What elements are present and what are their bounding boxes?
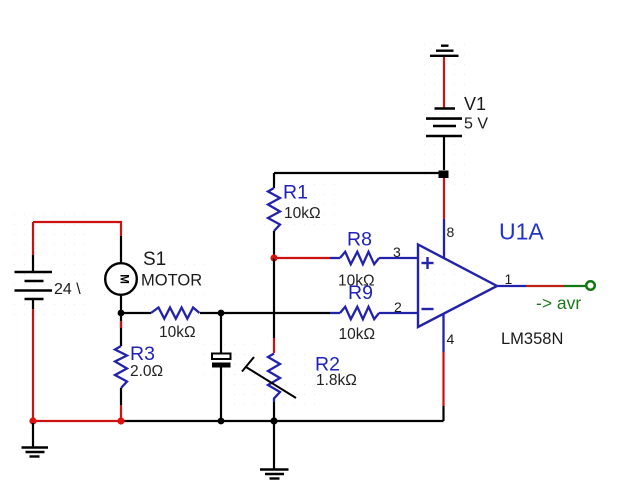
capacitor C1 xyxy=(212,313,231,421)
svg-text:R1: R1 xyxy=(283,182,308,204)
resistor R3 xyxy=(115,313,127,421)
resistor R8 xyxy=(274,252,418,264)
svg-text:8: 8 xyxy=(447,224,455,240)
svg-text:R9: R9 xyxy=(348,282,373,304)
wire: bottom rail red xyxy=(33,420,121,422)
ground (bottom left) xyxy=(22,423,49,457)
wire: motor bottom to junction xyxy=(120,295,122,313)
svg-text:1: 1 xyxy=(505,271,513,287)
svg-text:M: M xyxy=(117,274,129,284)
wire: top rail R1 to V1 xyxy=(274,172,444,174)
ground (top, above V1) xyxy=(430,46,459,56)
svg-text:2.0Ω: 2.0Ω xyxy=(130,363,163,380)
svg-text:24 \: 24 \ xyxy=(54,281,81,298)
svg-text:10kΩ: 10kΩ xyxy=(159,324,196,341)
motor S1 xyxy=(105,263,137,295)
svg-text:MOTOR: MOTOR xyxy=(141,272,202,290)
pin 4 wire xyxy=(442,314,444,421)
node: motor/R3 junction xyxy=(118,310,125,317)
wire: bottom rail black xyxy=(121,420,444,422)
svg-text:R8: R8 xyxy=(347,229,372,251)
wire: R2 column below red node xyxy=(273,258,275,353)
node: red dot R3 bottom xyxy=(117,417,124,424)
svg-text:10kΩ: 10kΩ xyxy=(339,326,376,343)
node: R2 bottom junction xyxy=(270,417,277,424)
ground (bottom center) xyxy=(260,423,289,479)
pin 8 wire xyxy=(443,177,445,259)
resistor 10kΩ (series to op-amp) xyxy=(121,308,221,319)
svg-text:10kΩ: 10kΩ xyxy=(284,205,321,222)
pin 1 output wire xyxy=(497,285,586,287)
svg-text:3: 3 xyxy=(393,244,401,260)
wire: left red wire battery to bottom rail xyxy=(32,309,34,421)
svg-text:LM358N: LM358N xyxy=(501,330,563,348)
battery 24V xyxy=(15,222,53,309)
battery V1 xyxy=(426,109,462,171)
svg-text:U1A: U1A xyxy=(499,219,544,245)
op-amp U1A xyxy=(418,245,497,328)
svg-text:R3: R3 xyxy=(130,343,155,365)
node: red dot bottom left xyxy=(29,417,36,424)
wire: net to R9 xyxy=(221,312,330,314)
node: square junction top rail / V1 xyxy=(439,171,449,179)
svg-text:2: 2 xyxy=(394,299,402,315)
node: red junction R1/R8/R2 xyxy=(270,254,277,261)
wire: top-left red rail from 24V battery to motor xyxy=(33,222,121,264)
node: capacitor junction xyxy=(218,310,225,317)
wire: ground to V1 xyxy=(443,57,445,108)
output terminal (green) xyxy=(586,281,595,290)
svg-text:4: 4 xyxy=(447,331,455,347)
resistor R9 xyxy=(330,307,418,319)
svg-text:S1: S1 xyxy=(143,249,166,270)
svg-text:-> avr: -> avr xyxy=(536,293,581,313)
node: capacitor bottom junction xyxy=(218,418,225,425)
resistor R1 xyxy=(268,173,280,255)
resistor R2 (variable) xyxy=(242,354,296,422)
svg-text:1.8kΩ: 1.8kΩ xyxy=(316,372,357,389)
svg-text:V1: V1 xyxy=(464,94,486,114)
grid speckle patches (decorative) xyxy=(14,35,473,405)
svg-text:5 V: 5 V xyxy=(464,116,488,133)
